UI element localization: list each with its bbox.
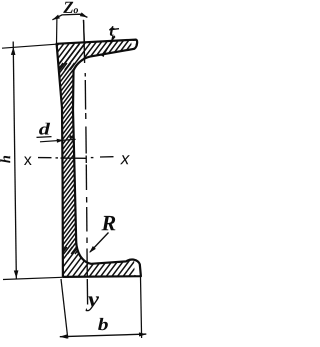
channel section outline bbox=[57, 40, 141, 277]
y-axis solid through bottom flange bbox=[86, 249, 88, 278]
b dimension line bbox=[60, 334, 147, 337]
z0 right extension line bbox=[83, 20, 84, 42]
b left extension line bbox=[61, 279, 68, 339]
h arrow up bbox=[11, 47, 16, 55]
x axis dot 1 bbox=[56, 157, 59, 159]
x axis solid across web bbox=[61, 157, 87, 159]
d arrowhead at web right face bbox=[69, 135, 74, 139]
y-axis dot bbox=[86, 238, 88, 244]
z0 left arrowhead bbox=[52, 15, 60, 20]
y-axis dot bbox=[86, 197, 88, 203]
R label bbox=[101, 216, 115, 230]
x axis left label bbox=[24, 157, 32, 165]
z0 right arrowhead bbox=[80, 12, 88, 17]
z0 dimension line bbox=[52, 14, 87, 20]
y-axis dash bbox=[85, 165, 87, 191]
b right arrowhead bbox=[139, 332, 147, 336]
d arrow line bbox=[40, 139, 76, 141]
z0 label subscript o bbox=[74, 8, 79, 13]
y-axis solid below flange bbox=[86, 279, 88, 305]
t label bbox=[110, 26, 115, 36]
d arrowhead at web left face bbox=[57, 139, 64, 143]
white gap in toe of top flange bbox=[131, 41, 136, 48]
t arrow upper bbox=[111, 36, 116, 42]
R arrow line bbox=[90, 233, 109, 253]
section hatching: bottom flange bbox=[30, 247, 162, 281]
y-axis dash bbox=[84, 80, 86, 110]
R arrowhead bbox=[89, 246, 96, 253]
t label crossbar bbox=[109, 29, 119, 30]
d underline bbox=[37, 136, 52, 139]
white gap in toe of bottom flange bbox=[134, 261, 140, 276]
section hatching: top flange bbox=[18, 30, 163, 70]
y-axis dot bbox=[85, 113, 87, 119]
y-axis solid at x crossing bbox=[85, 156, 87, 164]
x axis right label bbox=[120, 155, 130, 164]
section hatching: extra strokes in web-flange junction bbox=[59, 44, 85, 64]
y-axis dash bbox=[86, 207, 88, 232]
y label bbox=[86, 296, 99, 311]
h label bbox=[0, 156, 10, 163]
d label bbox=[39, 123, 50, 135]
y-axis solid through top flange bbox=[84, 20, 85, 63]
y-axis dash bbox=[85, 127, 87, 154]
x axis dash 2 bbox=[100, 156, 114, 158]
z0 label Z bbox=[63, 2, 73, 13]
b right extension line bbox=[141, 277, 142, 338]
h top extension line bbox=[2, 44, 56, 48]
y-axis dot bbox=[84, 73, 86, 77]
t arrow lower bbox=[101, 51, 106, 57]
t thickness tick bbox=[104, 36, 115, 55]
x axis dash 1 bbox=[38, 157, 52, 159]
h dimension line bbox=[13, 42, 16, 279]
h arrow down bbox=[14, 270, 19, 278]
section hatching: web bbox=[0, 63, 227, 254]
z0 left extension line bbox=[56, 18, 58, 44]
h bottom extension line bbox=[3, 277, 62, 279]
x axis dot 2 bbox=[91, 157, 94, 159]
b label bbox=[98, 318, 108, 330]
b left arrowhead bbox=[60, 334, 68, 338]
